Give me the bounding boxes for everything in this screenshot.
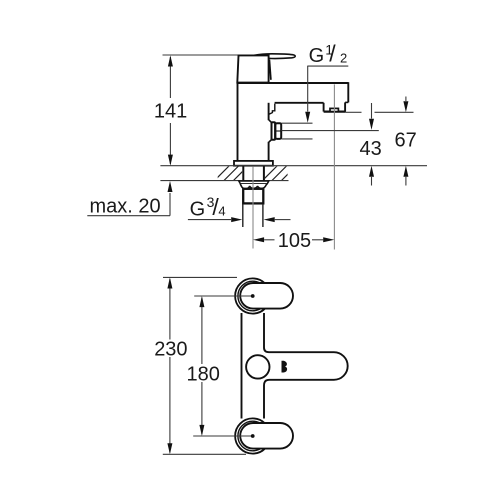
bottom pill (spout base): [240, 423, 293, 449]
spout underside: [275, 102, 324, 104]
svg-text:43: 43: [360, 138, 382, 160]
svg-text:180: 180: [187, 364, 220, 386]
handle lever rear edge: [269, 60, 271, 80]
aerator housing: [344, 102, 346, 111]
spout right edge: [347, 82, 349, 102]
dimension 141: [169, 57, 171, 98]
aerator outlet notch: [330, 108, 338, 111]
dimension 180: [194, 295, 253, 297]
svg-text:max. 20: max. 20: [90, 196, 161, 218]
svg-text:/: /: [329, 41, 336, 67]
right counterpart arrow of G3/4: [264, 217, 275, 222]
top pill (handle): [240, 283, 293, 309]
top flange outer circle: [235, 278, 270, 313]
dimension 105: [253, 237, 264, 242]
svg-text:4: 4: [218, 204, 225, 219]
extension lines side outlet: [282, 122, 313, 124]
recess step under spout: [269, 104, 275, 115]
wire: 141 top extension line: [163, 54, 239, 56]
center circle (cartridge): [246, 355, 269, 378]
svg-text:G: G: [309, 45, 325, 67]
bottom flange inner circle: [238, 421, 268, 451]
outlet mid line: [275, 130, 281, 132]
top flange inner circle: [238, 281, 268, 311]
body vertical lines: [241, 313, 243, 419]
svg-text:230: 230: [154, 339, 187, 361]
svg-text:2: 2: [340, 50, 347, 65]
bottom flange outer circle: [235, 418, 270, 453]
spout arm: [264, 348, 348, 386]
svg-text:67: 67: [395, 130, 417, 152]
handle lever underside shadow line: [256, 56, 270, 59]
supply tube: [242, 204, 244, 227]
svg-text:105: 105: [278, 230, 311, 252]
castellated lock nut: [240, 184, 266, 189]
handle base (trapezoid): [237, 55, 268, 82]
shank through slab: [242, 166, 244, 180]
handle lever blade: [254, 54, 295, 59]
dimension 230: [163, 276, 237, 278]
deck bottom line: [160, 180, 288, 182]
centerline spout outlet: [333, 84, 335, 249]
threaded shank G3/4: [243, 189, 263, 204]
washer: [239, 181, 269, 184]
side outlet ring: [272, 122, 276, 140]
extension line aerator bottom (67 top): [346, 111, 362, 113]
spout block top line (handle base bottom to spout end): [237, 82, 348, 84]
deck hatching: [210, 160, 312, 185]
side outlet cylinder G1/2: [275, 123, 281, 139]
base flange: [234, 161, 273, 166]
body column: [237, 83, 239, 161]
small logo mark: [282, 361, 288, 373]
deck top line: [160, 165, 427, 167]
svg-text:G: G: [190, 199, 206, 221]
centerline body: [252, 166, 254, 248]
dimension 43: [371, 103, 373, 119]
svg-text:141: 141: [154, 101, 187, 123]
side outlet cone: [269, 120, 272, 142]
spout bottom right ledge: [345, 101, 348, 103]
dimension 67: [405, 97, 407, 102]
